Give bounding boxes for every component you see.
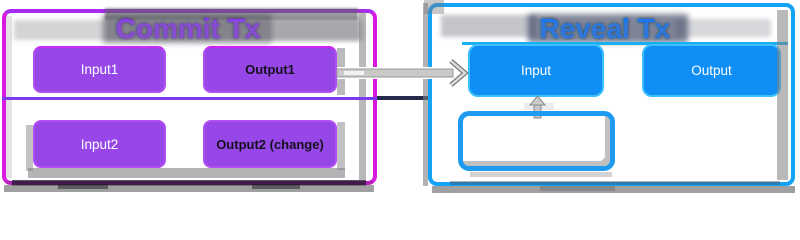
gray shadow under left box [4,185,374,192]
wash over reveal title [532,22,682,38]
commit smudge over top border [105,8,358,20]
input2 box [33,120,166,168]
reveal smudge right band [675,19,771,37]
dark dash bottom left 2 [252,184,300,189]
gray bar under script box [470,172,612,177]
gray shadow under right box [432,186,795,193]
gray strip left of input2 [26,125,33,171]
output box (reveal) [642,44,781,97]
commit title smudge wide band [14,20,364,40]
input1 box [33,46,166,93]
dark overlay on reveal bottom border [450,181,780,185]
reveal smudge left band [441,15,536,37]
gray patch right of output1 [337,48,345,95]
gray strip right of output box [777,10,788,180]
commit smudge right extension [268,17,360,41]
dark dash bottom left 1 [58,184,108,189]
faint gray strip inside left border of commit box [6,16,12,178]
title Reveal Tx [505,13,705,45]
gray strip inside right edge of commit box [359,12,366,180]
reveal smudge corner patch [424,0,444,14]
output2 box [203,120,337,168]
commit title smudge core [103,14,271,43]
input box (reveal) [468,44,604,97]
horizontal purple line [2,97,377,100]
cyan line under reveal title [462,42,788,45]
output1 box [203,46,337,93]
dark bottom border band left box [12,180,366,186]
big gray arrow commit to reveal [330,55,475,95]
dark dash bottom right [540,186,615,191]
gray strip left of reveal box border [423,3,428,186]
title Commit Tx [88,13,288,45]
reveal title smudge core [528,14,688,43]
wash over commit title [108,21,270,39]
commit tx container box [2,9,377,185]
dark connector line between boxes [377,96,428,100]
small gray arrow input to script box [524,95,554,119]
empty script box [458,111,615,171]
gray band under inner boxes left [28,168,345,178]
gray strip right of output2 [337,122,345,170]
reveal tx container box [428,3,795,186]
